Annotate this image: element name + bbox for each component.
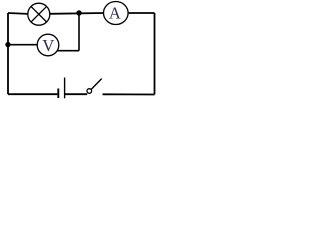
wire top-left segment — [8, 12, 28, 15]
wire right edge — [154, 13, 156, 95]
wire node to voltmeter — [8, 44, 37, 46]
wire battery to bottom-left corner — [8, 93, 57, 95]
wire riser to junction — [78, 13, 80, 51]
battery — [58, 78, 64, 99]
wire lamp to ammeter — [50, 12, 104, 15]
ammeter A — [104, 2, 129, 25]
wire voltmeter to riser — [57, 50, 79, 52]
node junction left — [5, 42, 10, 47]
node junction top — [76, 10, 81, 15]
lamp — [28, 3, 50, 25]
switch — [87, 79, 102, 94]
wire switch to battery — [65, 93, 87, 95]
wire ammeter to top-right corner — [129, 12, 155, 14]
wire bottom right segment — [103, 93, 155, 95]
wire left edge — [7, 13, 9, 94]
svg-text:A: A — [109, 4, 121, 23]
svg-text:V: V — [42, 36, 54, 55]
voltmeter V — [37, 34, 59, 56]
